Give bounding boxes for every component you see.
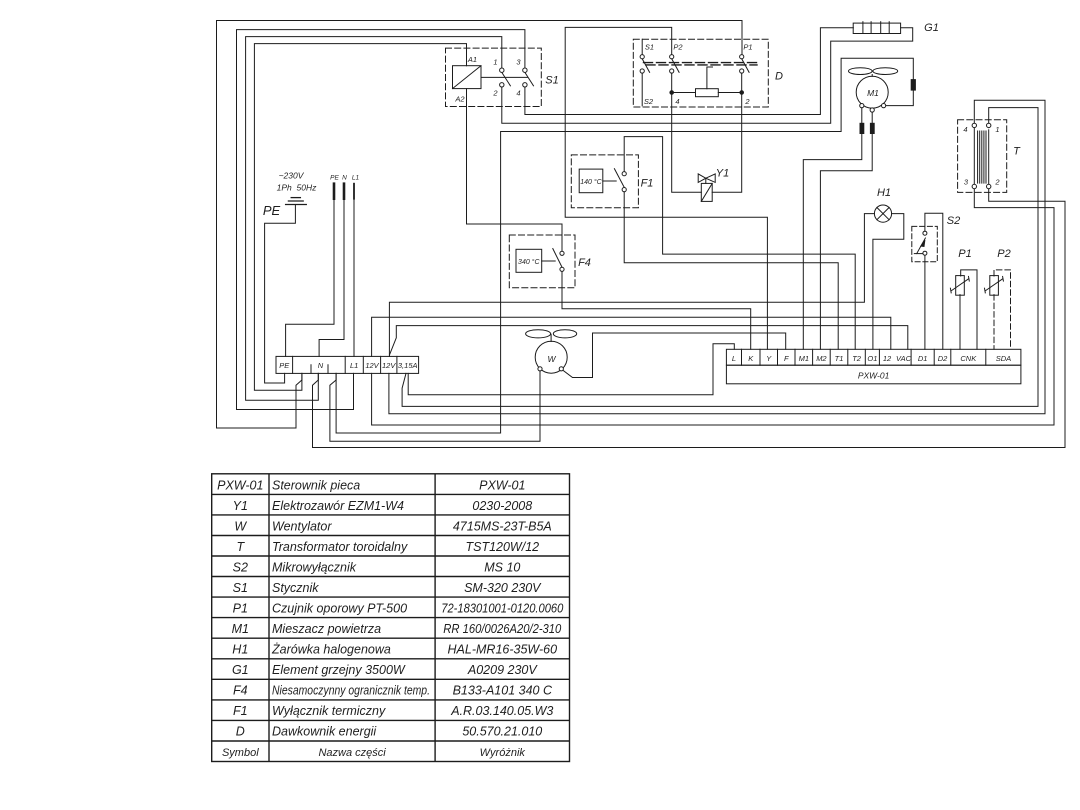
S2 actuation arrow [921,240,925,247]
svg-text:D2: D2 [938,354,948,363]
wire: PE supply to PE terminal [286,199,334,357]
wire: contactor coil A2 to limiter F4 top [467,89,563,252]
heating element G1 [853,23,900,33]
svg-text:1Ph 50Hz: 1Ph 50Hz [277,183,317,193]
wire: regulator D P2 to PXW-01 terminal Y [565,27,767,349]
wire: 12V terminal to transformer T pin 4 [389,100,1045,414]
svg-text:T2: T2 [852,354,862,363]
svg-text:1: 1 [493,58,497,67]
F1 contact circles [622,172,626,176]
sensor P1 body [956,276,965,296]
contactor S1 coil [453,66,482,89]
svg-text:W: W [234,519,247,533]
svg-text:Stycznik: Stycznik [272,581,319,595]
svg-text:TST120W/12: TST120W/12 [465,540,539,554]
wire: thermal switch F1 bottom to PXW-01 terminal T1 [624,192,838,350]
solenoid valve Y1 body [698,174,706,183]
svg-text:Dawkownik energii: Dawkownik energii [272,725,377,739]
wire: S1 contact 2 to heating element G1 right [502,28,913,124]
svg-text:F: F [784,354,789,363]
svg-text:72-18301001-0120.0060: 72-18301001-0120.0060 [441,602,563,616]
svg-text:S2: S2 [644,97,654,106]
wire: fan W right to PXW-01 terminal F [563,333,786,378]
svg-text:140 °C: 140 °C [580,178,602,186]
sensor P2 body (optional, dashed leads) [990,276,999,296]
svg-text:Symbol: Symbol [222,747,259,759]
svg-text:SM-320 230V: SM-320 230V [464,581,542,595]
energy regulator D dashed box [633,39,768,107]
svg-text:G1: G1 [924,22,939,34]
svg-text:4715MS-23T-B5A: 4715MS-23T-B5A [453,519,552,533]
svg-text:F1: F1 [233,704,248,718]
svg-text:PE: PE [263,203,281,218]
wire: fuse 3.15A jog to transformer T pin 1 [402,108,1038,407]
S2 contact circles [923,231,927,235]
svg-text:HAL-MR16-35W-60: HAL-MR16-35W-60 [448,643,558,657]
D switch contact circles [640,55,644,59]
air mixer M1 propeller [849,68,873,75]
wire: contactor coil A1 to N terminal [254,44,466,391]
D thermal link dashed lines [644,62,761,64]
svg-text:PE: PE [279,361,290,370]
Y1 coil [701,183,712,201]
svg-text:S2: S2 [233,560,248,574]
svg-text:F1: F1 [641,178,654,190]
fan W motor body [535,341,567,373]
wire: 12V terminal jog to PXW-01 terminal VAC [390,326,908,357]
contactor S1 dashed box [446,48,542,106]
svg-text:H1: H1 [232,643,248,657]
svg-text:A1: A1 [467,55,477,64]
contactor S1 contact blade 1-2 [502,72,511,85]
svg-text:W: W [547,354,556,364]
svg-text:Element grzejny 3500W: Element grzejny 3500W [272,663,406,677]
svg-text:Y1: Y1 [233,499,248,513]
fan W propeller [526,330,551,338]
svg-text:M1: M1 [232,622,249,636]
svg-text:Mikrowyłącznik: Mikrowyłącznik [272,560,357,574]
wire: PXW-01 terminal L to fuse 3.15A terminal [408,344,734,395]
svg-text:MS 10: MS 10 [484,560,520,574]
wire: sensor P2 top to PXW-01 terminal SDA (dashed) [994,270,1011,349]
supply cable N stub [343,184,346,199]
svg-text:F4: F4 [578,257,591,269]
power strip sub-terminal ticks [310,365,312,374]
F4 sensor box 340C [516,249,542,272]
wire: N terminal jog to fan W left [330,371,540,441]
svg-text:N: N [318,361,324,370]
svg-text:P2: P2 [673,43,683,52]
svg-text:RR 160/0026A20/2-310: RR 160/0026A20/2-310 [443,622,561,636]
D switch P2 blade [672,59,679,73]
wire: sensor P2 bottom to PXW-01 terminal SDA (dashed) [993,295,995,350]
F1 actuator link [603,180,616,182]
svg-text:340 °C: 340 °C [518,258,540,266]
D resistor link to thermal element [707,67,713,89]
M1 terminal circles [860,104,864,108]
halogen lamp H1 [874,205,891,222]
svg-text:S1: S1 [233,581,248,595]
svg-text:CNK: CNK [960,354,977,363]
wire: microswitch S2 bottom to PXW-01 terminal D1 [924,255,926,349]
wire: motor M1 left terminal to PXW-01 terminal M1 [803,108,862,350]
svg-text:D: D [775,71,783,83]
svg-text:4: 4 [963,125,967,134]
wire: motor M1 middle terminal to PXW-01 terminal M2 [820,112,872,349]
wire: 12V terminal to transformer T pin 3 [372,189,1054,425]
svg-text:12V: 12V [365,361,379,370]
wire: L1 supply to L1 terminal [353,199,355,357]
svg-text:1: 1 [995,125,999,134]
svg-text:12: 12 [883,354,892,363]
svg-text:M1: M1 [867,88,879,98]
svg-text:A2: A2 [454,95,465,104]
wire: PE ground to PE terminal [265,205,296,384]
contactor S1 coil link line [481,76,528,78]
svg-text:M2: M2 [816,354,827,363]
wire: S1 contact 1 to N terminal [246,37,502,401]
svg-text:Niesamoczynny ogranicznik temp: Niesamoczynny ogranicznik temp. [272,684,430,698]
svg-text:A0209 230V: A0209 230V [467,663,538,677]
wire: D switch S1 upper lead [641,39,643,54]
svg-text:Wyłącznik termiczny: Wyłącznik termiczny [272,704,386,718]
svg-text:A.R.03.140.05.W3: A.R.03.140.05.W3 [450,704,553,718]
controller PXW-01 label box [726,365,1021,384]
svg-text:P1: P1 [743,43,752,52]
svg-text:PXW-01: PXW-01 [217,478,263,492]
T terminal circles [972,123,976,127]
wire: N supply to N terminal [319,199,344,357]
svg-text:P1: P1 [958,248,971,260]
svg-text:PXW-01: PXW-01 [479,478,525,492]
wire: N terminal jog to transformer T pin 2 [313,189,1066,448]
wire: microswitch S2 top to PXW-01 terminal D2 [925,213,943,349]
wire: resistor to D node 2 [718,92,741,94]
svg-text:Mieszacz powietrza: Mieszacz powietrza [272,622,381,636]
wire: S1 contact 3 to L1 terminal [237,30,525,410]
wire: lamp H1 right to PXW-01 terminal O1 [873,214,904,350]
svg-text:M1: M1 [799,354,809,363]
fan W terminal circles [538,367,542,371]
T winding core lines [973,128,975,185]
svg-text:Elektrozawór EZM1-W4: Elektrozawór EZM1-W4 [272,499,404,513]
svg-text:L: L [732,354,736,363]
svg-text:L1: L1 [352,175,360,182]
microswitch S2 dashed box [912,226,938,261]
transformer T dashed box [958,120,1007,193]
wire: 12V terminal to PXW-01 terminal 12 [372,317,891,356]
svg-text:L1: L1 [350,361,358,370]
air mixer M1 motor body [856,76,888,108]
svg-text:4: 4 [675,97,679,106]
D resistor [696,89,719,97]
D junction node 4 [670,91,674,95]
F4 actuator link [542,260,556,262]
svg-text:Wyróżnik: Wyróżnik [480,747,526,759]
svg-text:4: 4 [516,89,520,98]
wire: D node 4 to resistor [672,92,696,94]
svg-text:2: 2 [994,178,1000,187]
svg-text:P1: P1 [233,602,248,616]
F4 contact circles [560,251,564,255]
svg-text:~230V: ~230V [279,171,305,181]
thermal switch F1 dashed box [571,155,638,208]
svg-text:O1: O1 [867,354,877,363]
wire: limiter F4 bottom to PXW-01 terminal K [562,271,751,349]
svg-text:Y1: Y1 [716,168,729,180]
svg-text:50.570.21.010: 50.570.21.010 [462,725,542,739]
svg-text:PXW-01: PXW-01 [858,371,890,381]
svg-text:S1: S1 [645,43,654,52]
svg-text:12V: 12V [382,361,396,370]
supply cable L1 stub [353,184,355,199]
D switch S1 blade [642,59,649,73]
svg-text:2: 2 [492,89,498,98]
svg-text:PE: PE [330,175,339,182]
svg-text:S2: S2 [947,215,960,227]
contactor S1 contact blade 3-4 [525,72,534,85]
D junction node 2 [740,91,744,95]
PE ground symbol [286,204,307,206]
svg-text:D1: D1 [918,354,928,363]
svg-text:Transformator toroidalny: Transformator toroidalny [272,540,408,554]
svg-text:0230-2008: 0230-2008 [472,499,532,513]
svg-text:T1: T1 [835,354,844,363]
svg-text:Nazwa części: Nazwa części [318,747,386,759]
svg-text:P2: P2 [997,248,1010,260]
supply cable PE stub [333,184,336,199]
F1 sensor box 140C [579,169,603,193]
wire: N terminal to energy regulator D P1 (outer loop) [217,21,743,429]
svg-text:S1: S1 [545,75,558,87]
wire: D switch S1 lower lead to terminal S2 [641,73,643,106]
power terminal strip [276,356,419,373]
wire: regulator D P2 lower to valve Y1 left [672,73,702,192]
temperature limiter F4 dashed box [509,235,575,288]
svg-text:Sterownik pieca: Sterownik pieca [272,478,360,492]
M1 connector bars [860,123,864,133]
wire: N terminal to air mixer M1 frame loop [336,58,913,433]
wire: lamp H1 left to 12V terminal [389,214,874,357]
controller PXW-01 terminal strip [726,349,1021,365]
svg-text:G1: G1 [232,663,249,677]
F1 blade [614,169,624,188]
parts table [212,474,570,762]
S2 blade [917,238,926,254]
svg-text:3,15A: 3,15A [398,361,418,370]
wire: regulator D P1 lower to valve Y1 right [712,73,742,192]
svg-text:Wentylator: Wentylator [272,519,332,533]
F4 blade [553,249,562,268]
svg-text:H1: H1 [877,187,891,199]
svg-text:SDA: SDA [996,354,1011,363]
wire: sensor P1 top to PXW-01 terminal CNK [961,270,977,349]
wire: sensor P1 bottom to PXW-01 terminal CNK [959,295,961,350]
svg-text:VAC: VAC [896,354,912,363]
svg-text:F4: F4 [233,684,248,698]
D switch P1 blade [742,59,749,73]
svg-text:2: 2 [744,97,750,106]
wire: S1 contact 4 to heating element G1 left [525,28,853,115]
svg-text:B133-A101 340 C: B133-A101 340 C [453,684,553,698]
svg-text:D: D [236,725,245,739]
svg-text:Czujnik oporowy PT-500: Czujnik oporowy PT-500 [272,602,407,616]
contactor S1 contact circles [500,68,504,72]
svg-text:Żarówka halogenowa: Żarówka halogenowa [271,643,391,657]
wire: thermal switch F1 top route to PXW-01 terminal T2 [624,137,855,350]
svg-text:N: N [342,175,347,182]
